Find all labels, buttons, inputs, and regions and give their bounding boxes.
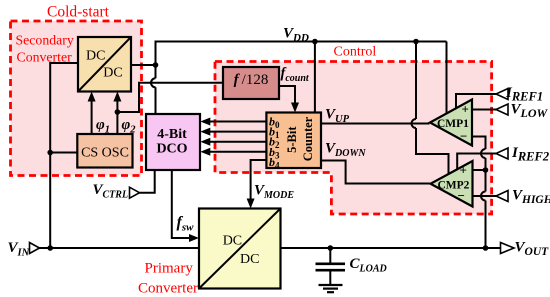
svg-text:Primary: Primary xyxy=(145,261,194,277)
wire phi2 to f/128 input xyxy=(117,83,223,112)
wire VDD to DCO (with hop over f/128 input) xyxy=(155,65,157,114)
wire V_CTRL to DCO xyxy=(140,170,155,193)
wire VDD rail xyxy=(156,42,447,66)
svg-text:+: + xyxy=(462,102,469,117)
wire phi1 arrow xyxy=(91,100,93,134)
wire V_UP (CMP1 output) xyxy=(321,123,430,125)
svg-text:CS OSC: CS OSC xyxy=(81,146,129,161)
svg-text:Converter: Converter xyxy=(138,281,198,297)
wires b0-b3 to DCO with arrows xyxy=(210,121,267,123)
wire V_HIGH xyxy=(473,195,497,197)
svg-text:DC: DC xyxy=(86,49,105,64)
pin V_LOW xyxy=(496,104,508,115)
wire feedback CMP1- / CMP2+ to VOUT (with hops) xyxy=(472,137,486,249)
svg-text:Control: Control xyxy=(334,45,377,60)
svg-text:DC: DC xyxy=(240,252,259,267)
cold-start dashed region xyxy=(11,21,142,176)
wire VIN bus left xyxy=(50,63,78,248)
wire I_REF2 xyxy=(457,154,496,170)
control dashed region xyxy=(215,62,492,215)
svg-text:Counter: Counter xyxy=(301,116,315,161)
wire phi2 arrow xyxy=(116,100,118,134)
svg-text:−: − xyxy=(460,129,467,144)
wire V_OUT line xyxy=(281,247,501,249)
junction dots on VDD rail xyxy=(153,62,159,68)
wire secondary converter output xyxy=(131,64,156,66)
svg-text:4-Bit: 4-Bit xyxy=(157,127,187,142)
op-amp CMP2 xyxy=(431,161,473,207)
wire VDD to CMP1 xyxy=(446,42,448,114)
wire I_REF1 xyxy=(456,94,496,108)
wire f_count xyxy=(279,86,295,104)
primary converter block xyxy=(199,209,281,289)
wire to CS OSC xyxy=(50,152,77,154)
svg-text:5-Bit: 5-Bit xyxy=(285,126,299,153)
svg-text:−: − xyxy=(458,188,465,203)
pin I_REF2 xyxy=(496,148,508,159)
wire V_IN line xyxy=(40,247,200,249)
wire CMP2 + input xyxy=(473,169,486,171)
capacitor C_LOAD xyxy=(329,248,331,263)
wire f_sw xyxy=(172,170,190,238)
pin V_HIGH xyxy=(496,191,508,202)
wire b4 to V_MODE xyxy=(251,160,267,200)
secondary converter block xyxy=(78,37,131,92)
svg-text:Cold-start: Cold-start xyxy=(47,4,110,21)
5-bit counter block xyxy=(266,113,321,171)
f/128 block xyxy=(223,67,279,99)
pin V_OUT xyxy=(501,243,515,254)
ground xyxy=(319,284,343,286)
svg-text:Secondary: Secondary xyxy=(16,33,74,48)
svg-text:+: + xyxy=(460,163,467,178)
wire VDD to CMP2 (with hop over CMP1 output) xyxy=(416,42,449,175)
4-bit DCO block xyxy=(146,114,200,170)
wire VDD to counter xyxy=(314,42,316,113)
svg-text:DC: DC xyxy=(103,66,122,81)
svg-text:f /128: f /128 xyxy=(234,72,269,88)
op-amp CMP1 xyxy=(430,100,472,146)
pin I_REF1 xyxy=(496,89,508,100)
svg-text:DC: DC xyxy=(223,234,242,249)
CS OSC block xyxy=(77,134,132,168)
wire V_DOWN (CMP2 output) xyxy=(321,161,430,184)
wire V_LOW xyxy=(472,109,496,111)
svg-text:DCO: DCO xyxy=(156,142,187,157)
